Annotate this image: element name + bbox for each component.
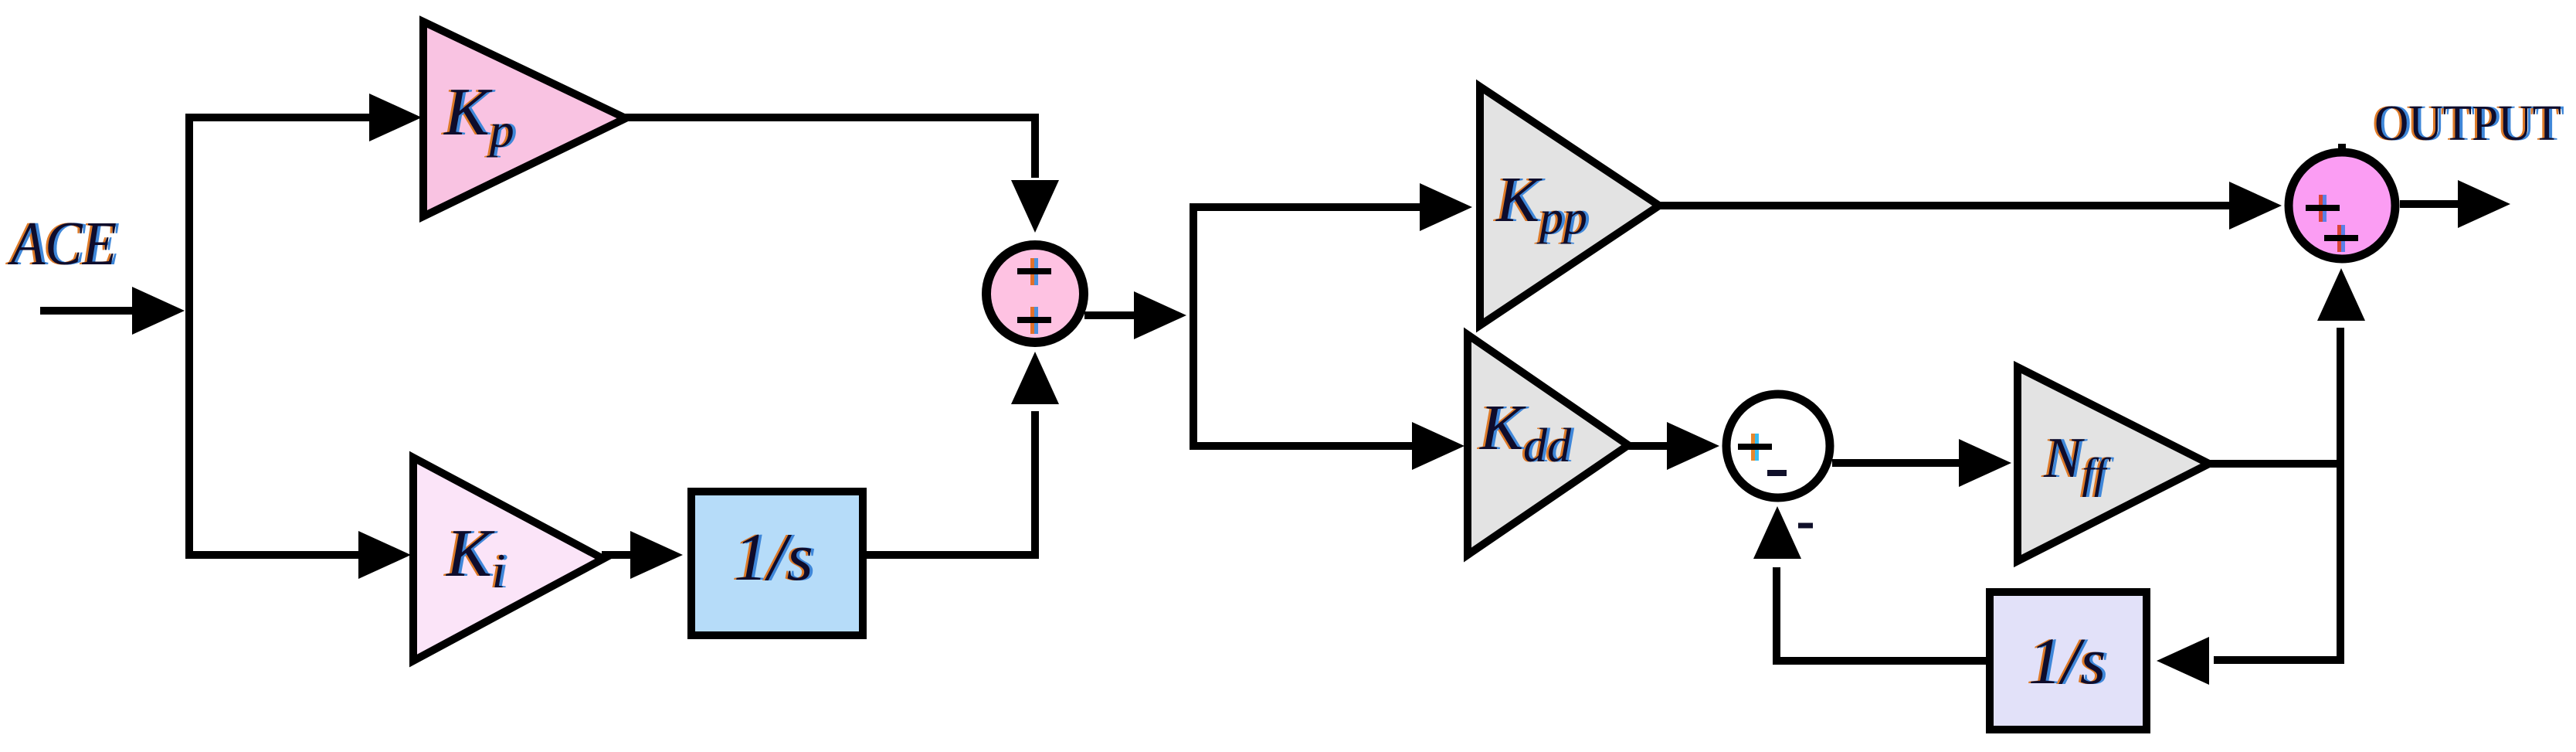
svg-text:1/s: 1/s (734, 520, 813, 595)
gain Kpp (1480, 87, 1659, 325)
arrowhead into Kpp (1420, 183, 1472, 231)
arrowhead up into S1 bottom (1011, 352, 1059, 404)
plus sign S3 lower (2324, 225, 2358, 252)
arrowhead up into S2 bottom (1753, 506, 1801, 559)
minus sign S2 (1767, 470, 1787, 476)
plus sign S3 upper (2306, 195, 2340, 222)
arrowhead left into integrator 1/s (right) (2157, 637, 2209, 685)
stub tick on top of S3 (2338, 144, 2346, 151)
arrowhead into Kdd (1412, 422, 1464, 470)
wire S1 output (1084, 311, 1135, 319)
wire Kpp output to output summing junction (1656, 202, 2229, 209)
node ACE label (5, 210, 120, 278)
wire trunk with top and bottom rails (189, 117, 369, 555)
arrowhead into Nff (1959, 439, 2011, 487)
label 1/s (left) (731, 520, 816, 595)
gain Nff (2018, 367, 2209, 561)
output summing junction S3 (2289, 152, 2395, 259)
wire Nff output to junction node (2206, 460, 2340, 468)
arrowhead ACE into trunk node (132, 287, 185, 335)
label Ki (443, 516, 508, 598)
arrowhead into summing junction S2 (1667, 422, 1719, 470)
arrowhead into split node (1134, 291, 1186, 339)
wire junction down and left to integrator 1/s (right) (2214, 460, 2340, 660)
plus sign S1 top (1017, 258, 1051, 285)
wire split node branches (1193, 207, 1420, 446)
wire S2 output (1832, 459, 1959, 467)
gain Kdd (1468, 335, 1628, 555)
summing junction S2 (1726, 394, 1830, 498)
svg-text:1/s: 1/s (2028, 624, 2106, 698)
wire ACE input (40, 307, 137, 315)
svg-text:ACE: ACE (7, 210, 117, 278)
label Kdd (1477, 392, 1575, 472)
wire integrator (right) output to S2 bottom (1777, 567, 1986, 661)
wire S3 output (2400, 200, 2458, 208)
arrowhead up into output summing junction bottom (2317, 268, 2365, 321)
plus sign S1 bottom (1017, 307, 1051, 334)
gain Kp (423, 22, 626, 216)
summing junction S1 (986, 245, 1084, 342)
plus sign S2 (1738, 434, 1772, 461)
label Kpp (1493, 164, 1590, 244)
wire Kp output to summing junction S1 (623, 117, 1035, 178)
integrator block 1/s (right) (1990, 592, 2147, 730)
wire integrator output up to S1 (867, 411, 1035, 555)
svg-text:OUTPUT: OUTPUT (2374, 95, 2561, 151)
arrowhead into Ki (358, 531, 411, 579)
wire junction up to output summing junction (2337, 328, 2344, 468)
wire Ki output (602, 551, 630, 559)
label Nff (2041, 427, 2115, 498)
arrowhead final output (2458, 180, 2510, 228)
node OUTPUT label (2372, 95, 2564, 151)
integrator block 1/s (left) (691, 492, 863, 635)
minus sign S2 feedback input (1798, 523, 1813, 529)
wire Kdd output (1625, 442, 1667, 450)
label Kp (440, 75, 518, 158)
arrowhead into output summing junction (2229, 182, 2282, 230)
gain Ki (413, 458, 603, 661)
arrowhead into Kp (369, 94, 422, 141)
arrowhead into integrator block 1/s (left) (630, 531, 683, 579)
arrowhead down into S1 (1011, 180, 1059, 233)
label 1/s (right) (2026, 624, 2109, 698)
